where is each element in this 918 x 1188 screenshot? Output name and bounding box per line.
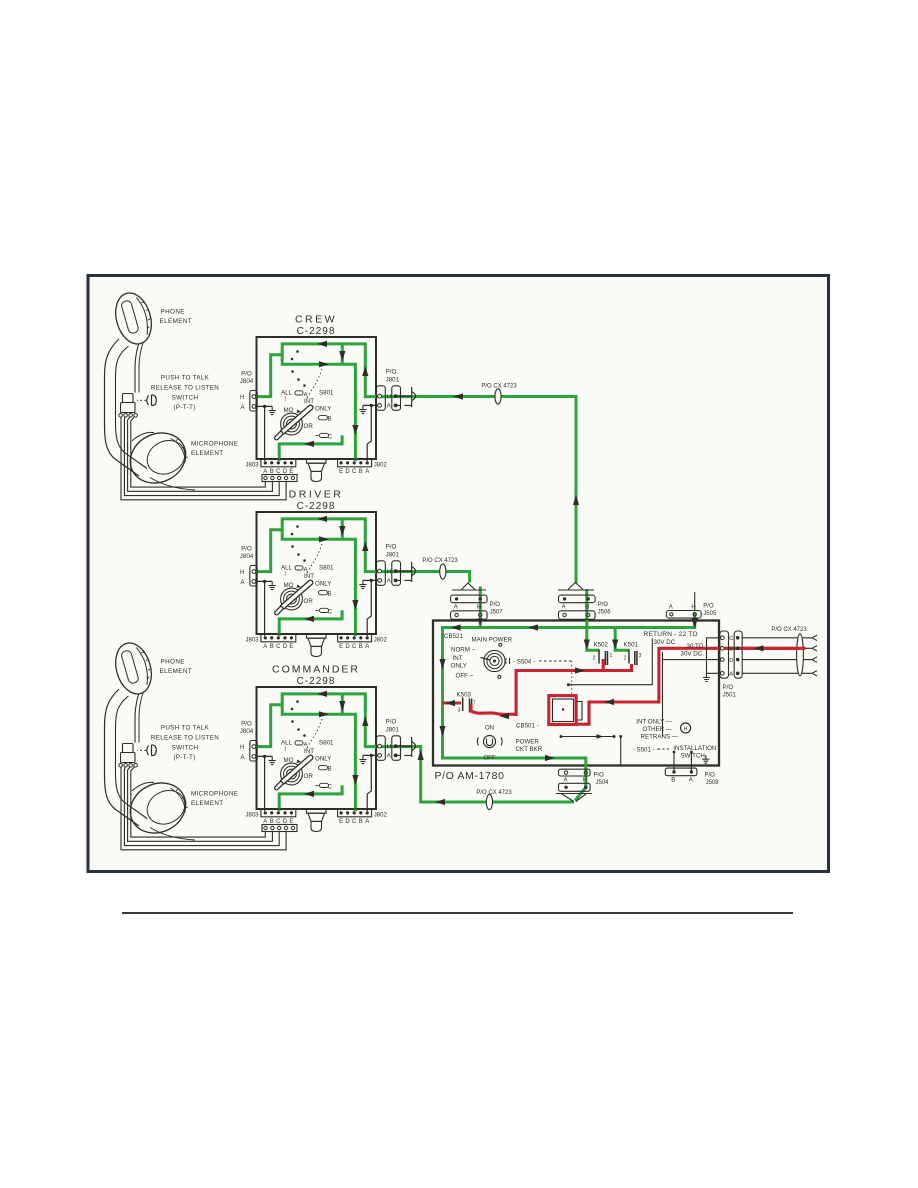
handset H2 (commander) (105, 639, 298, 850)
wire: relay K501 to retrans switch (662, 652, 664, 737)
connector P/O J504 (559, 769, 591, 776)
svg-text:J505: J505 (703, 611, 717, 617)
svg-text:C-2298: C-2298 (297, 326, 336, 337)
svg-text:H: H (684, 727, 688, 733)
svg-text:3: 3 (458, 708, 461, 714)
svg-text:NORM ~: NORM ~ (451, 647, 476, 654)
svg-text:P/O: P/O (705, 773, 716, 779)
wire: 30V DC feed from J501-B (red) (576, 648, 805, 724)
separator rule (122, 912, 793, 914)
svg-text:SWITCH: SWITCH (681, 753, 705, 760)
svg-text:H: H (477, 604, 481, 610)
wire: K503 to relays K502/K501 (red) (443, 701, 462, 704)
svg-text:P/O CX 4723: P/O CX 4723 (422, 558, 458, 564)
svg-text:DRIVER: DRIVER (289, 489, 344, 501)
green feed to relay K501 (615, 628, 629, 651)
svg-text:P/O: P/O (723, 684, 734, 691)
svg-text:K503: K503 (457, 692, 472, 699)
svg-text:K502: K502 (594, 642, 609, 649)
svg-text:RETRANS —: RETRANS — (641, 733, 679, 740)
svg-text:J504: J504 (596, 780, 610, 786)
svg-text:- S501 - -: - S501 - - (633, 747, 659, 754)
svg-text:P/O: P/O (703, 604, 714, 610)
cable funnel above J507 (452, 583, 486, 590)
svg-text:30V DC: 30V DC (654, 639, 676, 646)
svg-text:P/O: P/O (490, 602, 501, 608)
svg-text:COMMANDER: COMMANDER (272, 664, 360, 676)
svg-text:RETURN - 22 TO: RETURN - 22 TO (644, 631, 698, 638)
svg-text:A: A (669, 604, 673, 610)
wire: J501-C internal (707, 638, 723, 674)
amplifier P/O AM-1780 box (433, 621, 719, 766)
svg-text:J508: J508 (706, 780, 720, 786)
svg-text:J501: J501 (723, 692, 737, 699)
svg-text:J506: J506 (598, 610, 612, 616)
svg-text:P/O AM-1780: P/O AM-1780 (435, 771, 505, 782)
cable CX-4723 commander to AM-1780 J504 (green) (417, 747, 574, 803)
svg-text:P/O: P/O (598, 602, 609, 608)
green distribution bus inside AM-1780 (443, 612, 695, 801)
handset H1 (crew) (105, 289, 298, 500)
svg-text:OFF ~: OFF ~ (456, 673, 474, 680)
svg-text:1: 1 (610, 653, 613, 659)
svg-text:A: A (562, 604, 566, 610)
connector P/O J501 (720, 631, 729, 678)
svg-text:A: A (454, 604, 458, 610)
svg-text:P/O CX 4723: P/O CX 4723 (771, 627, 807, 633)
svg-text:C: C (729, 636, 733, 642)
svg-text:INT: INT (453, 655, 463, 662)
svg-text:CKT BKR: CKT BKR (516, 746, 543, 753)
svg-text:ON: ON (485, 725, 494, 732)
cable CX-4723 crew to AM-1780 J506 (green) (417, 397, 576, 584)
svg-text:CREW: CREW (295, 314, 337, 326)
circuit breaker CB501 (553, 699, 574, 722)
svg-text:A: A (729, 672, 733, 678)
svg-text:C-2298: C-2298 (297, 501, 336, 512)
svg-text:CB501 -: CB501 - (516, 723, 539, 730)
svg-text:D: D (729, 658, 733, 664)
cable funnel below J504 (556, 794, 592, 802)
svg-text:A: A (689, 778, 693, 784)
wire: red loop around CB501 (549, 696, 576, 725)
green feed J507-H (479, 587, 482, 628)
svg-text:B: B (671, 778, 675, 784)
svg-text:INT ONLY —: INT ONLY — (636, 719, 673, 726)
green feed J506-H to relay K502 (587, 589, 599, 650)
svg-text:3: 3 (639, 653, 642, 659)
rotary switch CB521 MAIN POWER (484, 650, 505, 671)
svg-text:2: 2 (624, 656, 627, 662)
svg-text:C-2298: C-2298 (297, 676, 336, 687)
cable funnel above J506 (558, 583, 594, 591)
svg-text:P/O: P/O (594, 773, 605, 779)
svg-text:H: H (583, 778, 587, 784)
svg-text:OTHER —: OTHER — (642, 726, 672, 733)
svg-text:P/O CX 4723: P/O CX 4723 (481, 384, 517, 390)
svg-text:30 TO: 30 TO (687, 643, 704, 650)
svg-text:J507: J507 (490, 610, 504, 616)
connector P/O J505 (666, 611, 701, 619)
svg-text:INSTALLATION: INSTALLATION (673, 745, 716, 752)
svg-text:MAIN POWER: MAIN POWER (472, 637, 513, 644)
svg-text:OFF: OFF (483, 755, 496, 762)
wire: retrans row (561, 736, 614, 738)
svg-text:K501: K501 (624, 642, 639, 649)
svg-text:B: B (729, 647, 733, 653)
rotary switch S501 INSTALLATION (681, 723, 691, 733)
svg-text:POWER: POWER (516, 739, 540, 746)
svg-text:7: 7 (473, 701, 476, 707)
connector P/O J507 (451, 595, 488, 603)
cable CX-4723 at J501 (742, 635, 817, 640)
intercom control U3: COMMANDER C-2298 (240, 687, 417, 832)
svg-text:2: 2 (593, 656, 596, 662)
svg-text:- S504 -: - S504 - (513, 659, 535, 666)
intercom control U2: DRIVER C-2298 (240, 512, 417, 657)
svg-text:P/O CX 4723: P/O CX 4723 (476, 790, 512, 796)
svg-text:CB521: CB521 (444, 633, 463, 640)
page frame border (88, 276, 829, 872)
connector P/O J506 (559, 595, 596, 603)
svg-text:H: H (585, 604, 589, 610)
svg-text:30V DC: 30V DC (681, 651, 703, 658)
switch S504 with linkage (505, 658, 509, 664)
cable CX-4723 driver to AM-1780 J507 (green) (417, 572, 470, 583)
connector P/O J508 (665, 768, 697, 776)
svg-text:ONLY: ONLY (451, 663, 467, 670)
svg-text:A: A (563, 778, 567, 784)
wire: J501-D internal (568, 639, 722, 685)
intercom control U1: CREW C-2298 (240, 337, 417, 482)
